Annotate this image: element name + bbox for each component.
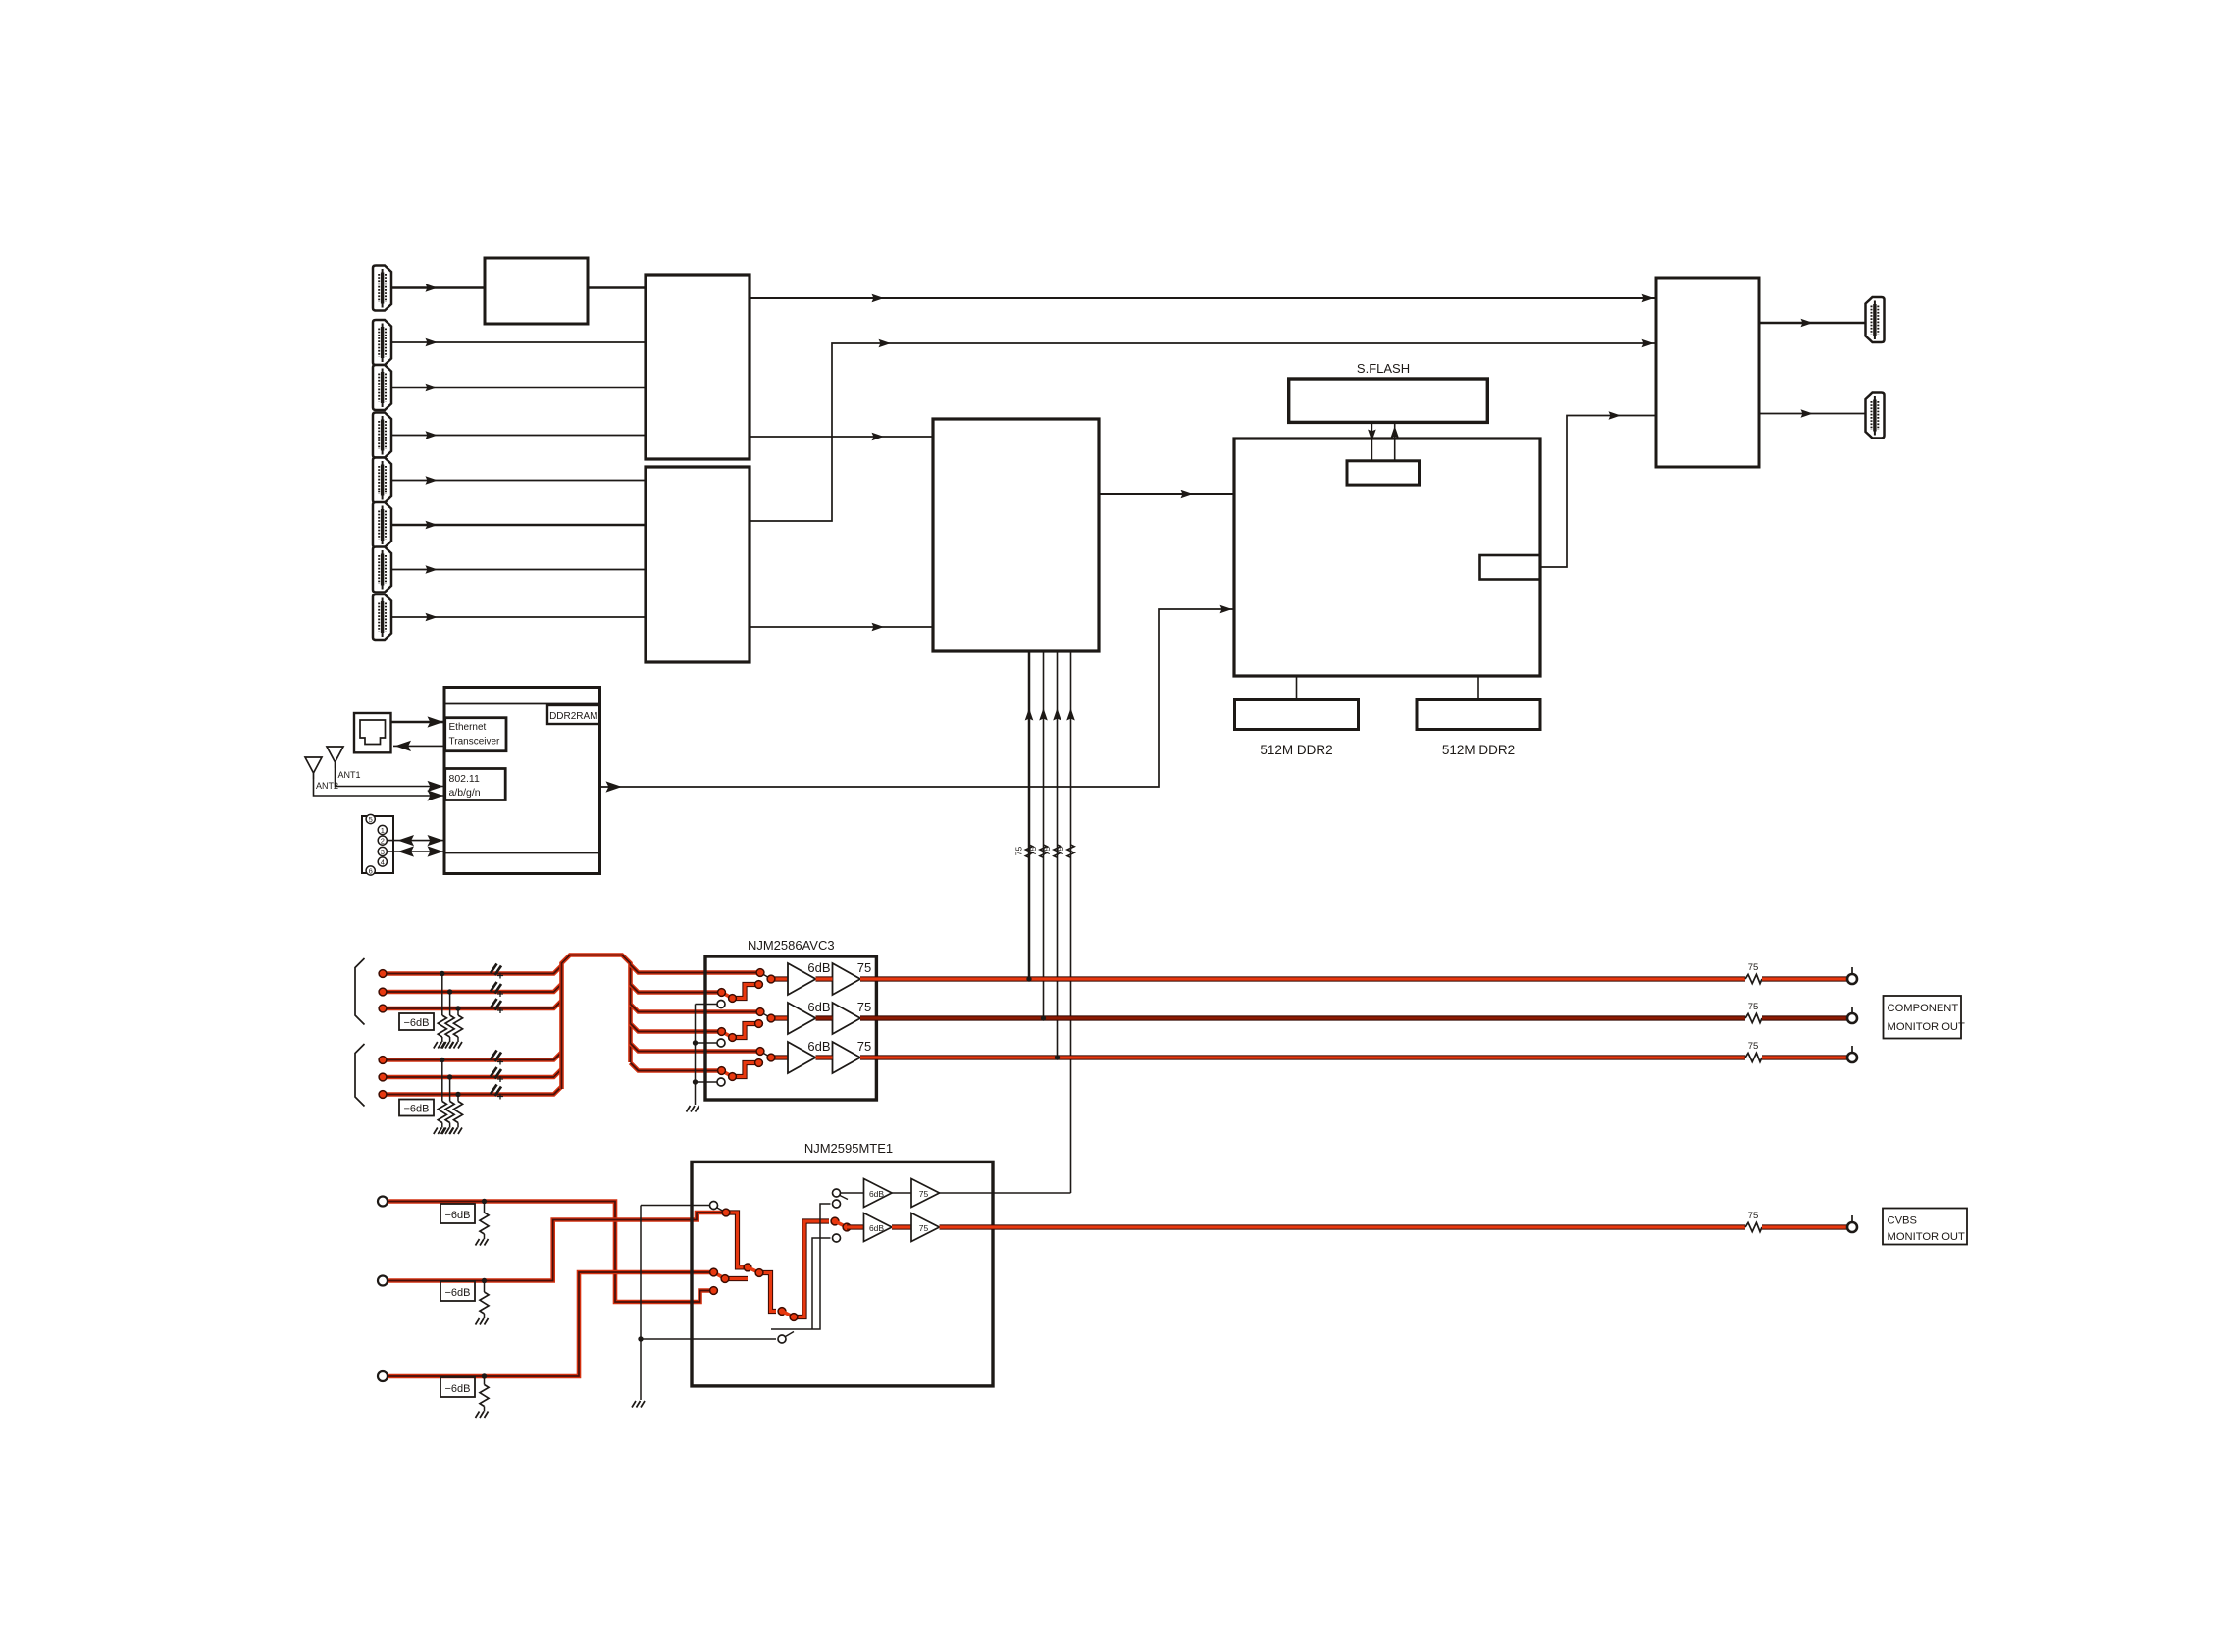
wire switch B out2 to SoC: [750, 623, 933, 632]
serial pin header connector: [362, 814, 393, 875]
active amp 6dB CVBS: [847, 1213, 911, 1242]
wire HDMI-IN2 to switch block A: [391, 338, 646, 347]
svg-text:2: 2: [381, 837, 385, 846]
NJM2595MTE1 video switch block: [692, 1162, 993, 1386]
svg-text:6dB: 6dB: [869, 1223, 884, 1233]
wire switch A out2 to SoC: [750, 433, 933, 441]
wire Y2 input: [383, 1053, 562, 1060]
svg-text:75: 75: [1056, 847, 1065, 856]
wire arch to NJM2586 ch3 main: [631, 1044, 761, 1052]
termination resistor CVBS2: [476, 1278, 490, 1325]
opamp 6dB ch-Y: [788, 960, 831, 995]
HDMI switch block A: [646, 275, 750, 459]
wire ANT1 to 802.11: [336, 768, 445, 792]
svg-text:MONITOR OUT: MONITOR OUT: [1888, 1231, 1966, 1243]
svg-text:75: 75: [919, 1189, 929, 1199]
svg-text:75: 75: [1748, 1041, 1759, 1052]
terminal Pr out: [1847, 1046, 1857, 1062]
wire CVBS input 1: [388, 1202, 710, 1303]
Ethernet Transceiver box: [445, 718, 506, 751]
input terminal dots group1: [379, 970, 387, 1012]
series resistor 75 CVBS out: [1745, 1211, 1762, 1232]
terminal Y out: [1847, 967, 1857, 984]
wire CVBS out to terminal: [1762, 1224, 1847, 1229]
svg-text:75: 75: [1748, 962, 1759, 973]
svg-text:75: 75: [919, 1223, 929, 1233]
connector HDMI-OUT1: [1866, 297, 1885, 342]
ground select bus NJM2586: [687, 1005, 718, 1112]
termination resistors group1: [434, 971, 463, 1049]
HDMI output block: [1656, 278, 1759, 467]
wire switch B out1 up and to output block: [750, 339, 1656, 521]
bracket component input group 2: [355, 1044, 365, 1107]
bracket component input group 1: [355, 958, 365, 1025]
svg-text:NJM2595MTE1: NJM2595MTE1: [804, 1141, 893, 1156]
NJM2586 channel Pb: [717, 1008, 788, 1047]
svg-text:75: 75: [1014, 847, 1024, 856]
unselected routing black: [771, 1200, 841, 1329]
wire HDMI TX to output block: [1540, 411, 1656, 567]
wire RJ45 to Ethernet (tx): [391, 716, 445, 727]
opamp 6dB ch-Pr: [788, 1039, 831, 1073]
svg-text:6: 6: [369, 867, 373, 876]
svg-text:75: 75: [1748, 1002, 1759, 1012]
svg-text:−6dB: −6dB: [445, 1383, 471, 1395]
standby amp 75: [911, 1179, 1071, 1208]
label box CVBS MONITOR OUT: [1883, 1209, 1967, 1245]
wire ch-Pr amp chain: [816, 1055, 1746, 1059]
svg-text:CVBS: CVBS: [1888, 1215, 1917, 1227]
svg-text:Transceiver: Transceiver: [449, 737, 501, 748]
512M DDR2 memory block 2: [1417, 700, 1540, 730]
wire HDMI-IN8 to switch block B: [391, 613, 646, 622]
S.FLASH memory block: [1289, 379, 1488, 422]
selected path sw1 to sw2: [722, 1209, 759, 1272]
512M DDR2 memory block 1: [1235, 700, 1359, 730]
wire CVBS input 2: [388, 1213, 723, 1281]
-6dB box group1: [399, 1013, 434, 1030]
terminal CVBS input 1: [378, 1197, 388, 1207]
wire DAC-Y vertical from U1: [1025, 651, 1034, 979]
wire Pr2 input: [383, 1087, 562, 1095]
wire ch-Y amp chain: [816, 976, 1746, 981]
wire Pb2 input: [383, 1069, 562, 1077]
svg-text:75: 75: [1042, 847, 1052, 856]
svg-text:−6dB: −6dB: [404, 1104, 430, 1115]
svg-text:75: 75: [1748, 1211, 1759, 1221]
bottom contact sw3: [778, 1332, 794, 1344]
-6dB box CVBS3: [440, 1377, 475, 1397]
wire HDMI-IN7 to switch block B: [391, 565, 646, 574]
junction DAC-Pb to Pb out: [1041, 1015, 1046, 1020]
series resistor 75 Pb out: [1745, 1002, 1762, 1023]
NJM2586 channel Y: [717, 969, 788, 1008]
wire output block to HDMI-OUT2: [1759, 409, 1866, 418]
svg-text:ANT2: ANT2: [316, 781, 338, 791]
wire EQ box to switch block A: [588, 286, 646, 289]
svg-text:ANT1: ANT1: [338, 770, 361, 780]
wire arch to NJM2586 ch1 alt: [631, 985, 722, 993]
selected path sw3 to output amp: [790, 1217, 851, 1320]
svg-text:Ethernet: Ethernet: [449, 722, 487, 733]
wire Pr1 input: [383, 1001, 562, 1008]
input terminal dots group2: [379, 1057, 387, 1099]
ground bus left of NJM2595: [632, 1206, 776, 1408]
separator line bottom of module: [444, 852, 600, 854]
opamp 6dB ch-Pb: [788, 1000, 831, 1034]
terminal CVBS out: [1847, 1215, 1857, 1232]
svg-text:6dB: 6dB: [807, 1039, 830, 1054]
wire CVBS output: [940, 1224, 1746, 1229]
junction DAC-Y to Y out: [1026, 976, 1031, 981]
termination resistor CVBS1: [476, 1199, 490, 1246]
terminal CVBS input 2: [378, 1276, 388, 1286]
svg-text:MONITOR OUT: MONITOR OUT: [1888, 1021, 1966, 1033]
svg-text:−6dB: −6dB: [404, 1017, 430, 1029]
svg-text:a/b/g/n: a/b/g/n: [449, 787, 481, 799]
wire U2 to DDR2 bank1: [1296, 676, 1298, 700]
antenna ANT2: [305, 757, 322, 779]
opamp 75 driver ch-Y: [833, 960, 872, 995]
routing bus arch: [562, 955, 631, 1090]
network/wifi module block: [444, 688, 600, 874]
svg-text:6dB: 6dB: [869, 1189, 884, 1199]
wire HDMI-IN6 to switch block B: [391, 521, 646, 530]
connector HDMI-IN6: [373, 502, 391, 547]
resistor 75 on DAC-Y: [1014, 845, 1033, 857]
wire S.FLASH write (arrow up): [1390, 422, 1399, 460]
svg-text:1: 1: [381, 826, 385, 835]
selected path sw2 to sw3: [755, 1269, 794, 1317]
svg-text:3: 3: [381, 848, 385, 856]
HDMI switch block B: [646, 467, 750, 662]
wire Ethernet to RJ45 (rx): [393, 741, 445, 751]
main SoC block U2: [1234, 439, 1540, 676]
label Ethernet Transceiver: [449, 722, 501, 748]
wire HDMI-IN5 to switch block B: [391, 476, 646, 485]
flash controller box inside U2: [1347, 461, 1420, 485]
svg-text:4: 4: [381, 858, 385, 867]
svg-text:6dB: 6dB: [807, 960, 830, 975]
svg-text:75: 75: [857, 960, 871, 975]
shield hatch marks group1: [491, 964, 503, 1014]
wire Y out to terminal: [1762, 976, 1847, 981]
connector HDMI-IN1: [373, 266, 391, 311]
wire HDMI-IN3 to switch block A: [391, 384, 646, 392]
svg-text:75: 75: [857, 1039, 871, 1054]
SoC video processor block U1: [933, 419, 1099, 651]
-6dB box group2: [399, 1100, 434, 1116]
wire arch to NJM2586 ch1 main: [631, 965, 761, 973]
junction DAC-Pr to Pr out: [1055, 1055, 1060, 1059]
wire DAC-CVBS vertical from U1: [1066, 651, 1075, 1193]
svg-text:5: 5: [369, 815, 373, 824]
802.11 a/b/g/n box: [445, 769, 506, 800]
wire pin3 to module (bidirectional): [388, 846, 444, 856]
svg-text:802.11: 802.11: [449, 773, 480, 785]
connector HDMI-IN3: [373, 365, 391, 410]
wire Pb out to terminal (dark): [1762, 1015, 1847, 1020]
label box COMPONENT MONITOR OUT: [1884, 996, 1966, 1039]
svg-text:512M DDR2: 512M DDR2: [1260, 743, 1332, 757]
svg-text:−6dB: −6dB: [445, 1287, 471, 1299]
resistor 75 on DAC-CVBS: [1056, 845, 1074, 857]
series resistor 75 Pr out: [1745, 1041, 1762, 1062]
wire arch to NJM2586 ch3 alt: [631, 1063, 722, 1071]
svg-text:COMPONENT: COMPONENT: [1888, 1003, 1959, 1014]
svg-text:6dB: 6dB: [807, 1000, 830, 1014]
svg-text:−6dB: −6dB: [445, 1210, 471, 1221]
connector HDMI-IN8: [373, 594, 391, 640]
wire Pb1 input: [383, 984, 562, 992]
switch sw2 alt contact from CVBS3: [710, 1268, 748, 1294]
svg-text:75: 75: [1028, 847, 1038, 856]
wire DAC-Pb vertical from U1: [1039, 651, 1048, 1018]
NJM2586AVC3 video amp block: [705, 956, 876, 1100]
svg-text:S.FLASH: S.FLASH: [1357, 361, 1410, 376]
wire S.FLASH read (arrow down): [1368, 422, 1376, 460]
opamp 75 driver ch-Pr: [833, 1039, 872, 1073]
wire module to main SoC U2: [600, 605, 1235, 793]
opamp 75 driver ch-Pb: [833, 1000, 872, 1034]
active amp 75 CVBS: [911, 1213, 940, 1242]
shield hatch marks group2: [491, 1051, 503, 1100]
wire output block to HDMI-OUT1: [1759, 319, 1866, 328]
EQ box: [485, 258, 588, 324]
standby amp 6dB: [841, 1179, 912, 1208]
wire CVBS input 3: [388, 1272, 710, 1376]
svg-text:75: 75: [857, 1000, 871, 1014]
RJ45 jack connector: [354, 713, 391, 752]
connector HDMI-IN5: [373, 458, 391, 503]
separator line top of module: [444, 703, 600, 705]
wire U2 to DDR2 bank2: [1477, 676, 1479, 700]
wire arch to NJM2586 ch2 alt: [631, 1024, 722, 1032]
svg-text:NJM2586AVC3: NJM2586AVC3: [748, 938, 835, 953]
connector HDMI-IN7: [373, 547, 391, 593]
label 802.11 a/b/g/n: [449, 773, 481, 799]
wire HDMI-IN4 to switch block A: [391, 431, 646, 439]
termination resistors group2: [434, 1058, 463, 1134]
terminal CVBS input 3: [378, 1371, 388, 1381]
wire switch A out1 to output block: [750, 294, 1656, 303]
-6dB box CVBS1: [440, 1204, 475, 1223]
HDMI TX box on U2 right edge: [1480, 555, 1541, 580]
wire pin2 to module (bidirectional): [388, 835, 444, 846]
connector HDMI-OUT2: [1866, 393, 1885, 439]
connector HDMI-IN2: [373, 320, 391, 365]
wire SoC U1 to main SoC U2: [1099, 490, 1234, 499]
wire ch-Pb amp chain (dark): [816, 1015, 1746, 1020]
termination resistor CVBS3: [476, 1373, 490, 1418]
svg-text:512M DDR2: 512M DDR2: [1442, 743, 1515, 757]
DDR2RAM tag box: [547, 705, 600, 724]
svg-text:DDR2RAM: DDR2RAM: [549, 711, 597, 722]
wire HDMI-IN1 to EQ box: [391, 284, 485, 292]
wire Y1 input: [383, 966, 562, 974]
standby amp chain contacts: [833, 1189, 849, 1200]
series resistor 75 Y out: [1745, 962, 1762, 984]
NJM2586 channel Pr: [717, 1048, 788, 1086]
resistor 75 on DAC-Pb: [1028, 845, 1047, 857]
antenna ANT1: [327, 747, 343, 768]
wire ANT2 to 802.11: [314, 779, 445, 801]
terminal Pb out: [1847, 1007, 1857, 1023]
wire Pr out to terminal: [1762, 1055, 1847, 1059]
wire arch to NJM2586 ch2 main: [631, 1005, 761, 1012]
resistor 75 on DAC-Pr: [1042, 845, 1061, 857]
wire DAC-Pr vertical from U1: [1053, 651, 1061, 1058]
-6dB box CVBS2: [440, 1281, 475, 1301]
connector HDMI-IN4: [373, 413, 391, 458]
switch contact sw1: [710, 1202, 727, 1213]
